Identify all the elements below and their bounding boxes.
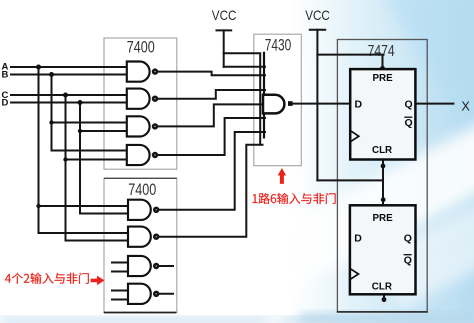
svg-text:D: D bbox=[2, 98, 9, 109]
svg-text:D: D bbox=[354, 232, 362, 244]
svg-text:Q: Q bbox=[404, 255, 412, 267]
svg-text:Q: Q bbox=[404, 232, 412, 244]
svg-text:7430: 7430 bbox=[265, 36, 292, 54]
svg-text:CLR: CLR bbox=[372, 145, 392, 156]
svg-text:VCC: VCC bbox=[212, 8, 237, 23]
svg-text:PRE: PRE bbox=[373, 213, 394, 224]
svg-text:CLR: CLR bbox=[372, 282, 392, 293]
svg-text:Q: Q bbox=[405, 117, 413, 129]
svg-text:B: B bbox=[2, 69, 9, 80]
svg-text:VCC: VCC bbox=[305, 8, 330, 23]
svg-text:Q: Q bbox=[405, 98, 413, 110]
svg-text:D: D bbox=[355, 98, 363, 110]
svg-text:PRE: PRE bbox=[373, 73, 394, 84]
svg-text:7400: 7400 bbox=[128, 181, 156, 199]
svg-text:7474: 7474 bbox=[368, 43, 395, 60]
svg-text:7400: 7400 bbox=[127, 39, 155, 57]
svg-text:X: X bbox=[461, 100, 470, 114]
